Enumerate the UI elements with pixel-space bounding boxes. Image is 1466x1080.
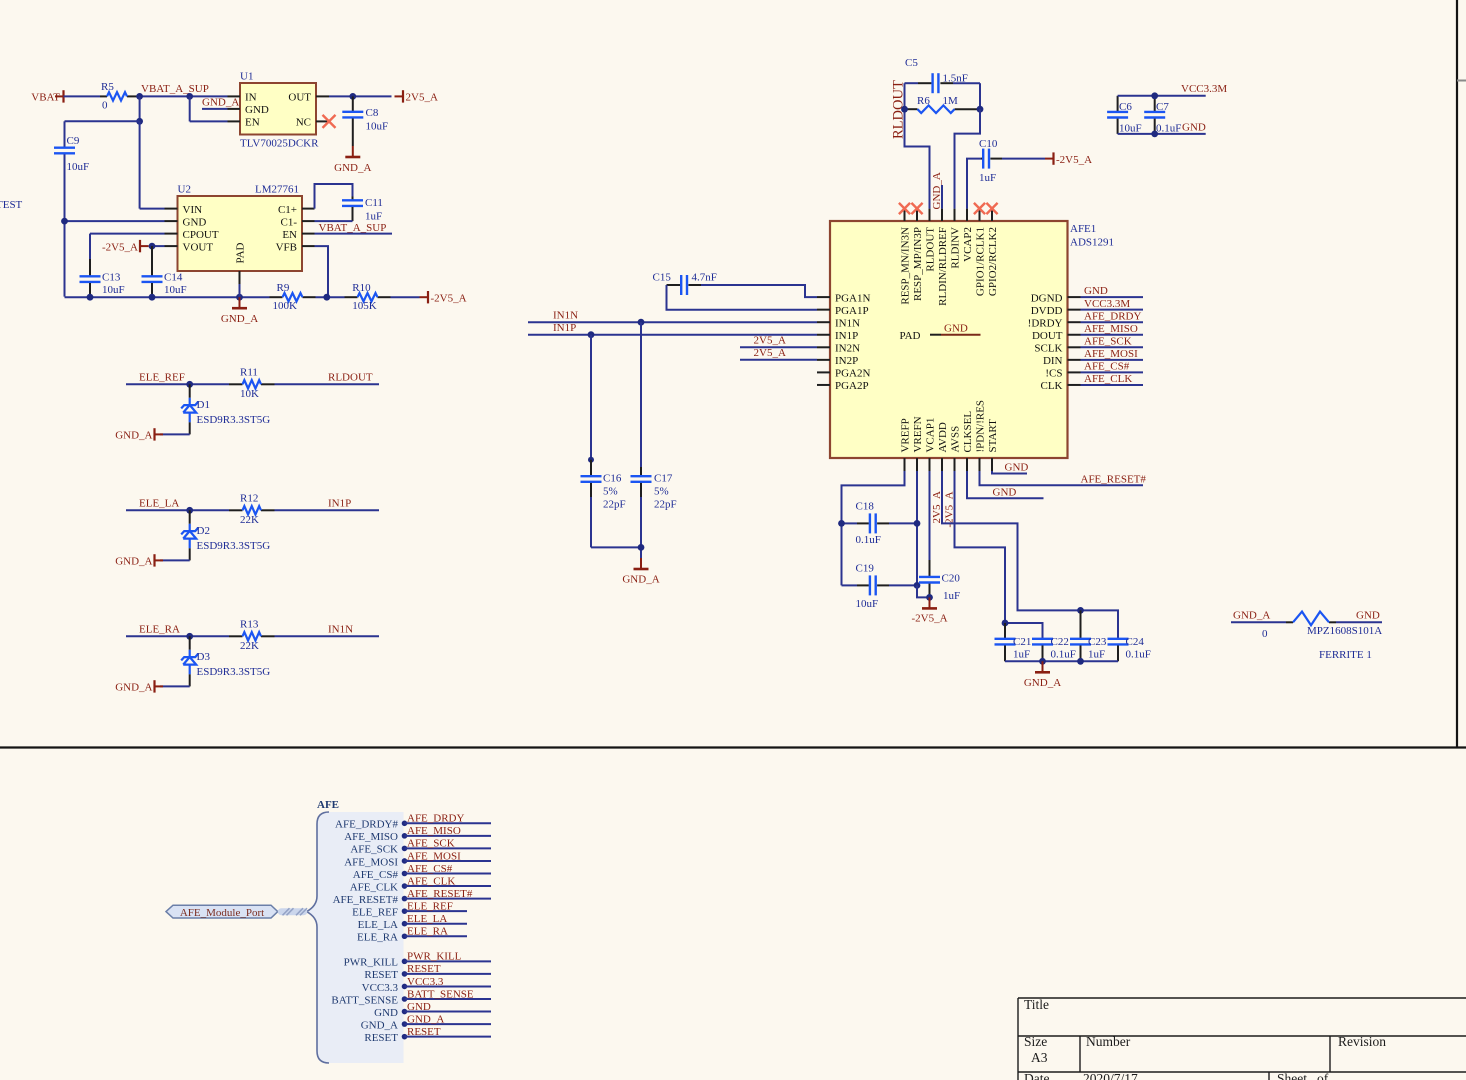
wire down to C9 branch	[139, 96, 141, 121]
diode D2 ESD9R3.3ST5G	[189, 510, 191, 524]
svg-text:PAD: PAD	[235, 242, 247, 263]
svg-text:R10: R10	[352, 282, 371, 294]
AFE1 left pin IN2P	[817, 359, 830, 361]
svg-text:ELE_REF: ELE_REF	[407, 900, 453, 912]
wire AVDD rail to C23 C24	[942, 471, 1118, 638]
no-connect X at RESP_MN/IN3N	[899, 203, 910, 214]
wire AFE_MISO net	[1081, 334, 1144, 336]
svg-text:IN1P: IN1P	[328, 497, 351, 509]
capacitor C24	[1108, 638, 1129, 640]
wire C17 column	[640, 322, 642, 467]
svg-text:GND: GND	[1356, 609, 1380, 621]
wire U2 EN to VBAT_A_SUP	[315, 233, 393, 235]
power port 2V5_A	[395, 95, 404, 97]
wire harness ELE_LA	[405, 923, 468, 925]
svg-text:0.1uF: 0.1uF	[856, 534, 881, 546]
junction C14 bottom	[149, 294, 156, 301]
AFE1 right pin !CS	[1068, 371, 1081, 373]
sheet border horizontal divider	[0, 746, 1466, 748]
power port GND_A at D3	[155, 685, 164, 687]
U2 pin EN	[302, 233, 315, 235]
title block frame	[1018, 997, 1466, 999]
svg-text:-2V5_A: -2V5_A	[102, 241, 138, 253]
svg-text:LM27761: LM27761	[255, 184, 299, 196]
svg-text:R12: R12	[240, 493, 258, 505]
wire GND_A to U1 GND pin	[202, 108, 228, 110]
svg-text:BATT_SENSE: BATT_SENSE	[407, 988, 474, 1000]
svg-text:PWR_KILL: PWR_KILL	[407, 951, 462, 963]
wire 2V5_A to IN2P	[740, 359, 817, 361]
junction C8 tap	[349, 93, 356, 100]
svg-text:MPZ1608S101A: MPZ1608S101A	[1307, 625, 1382, 637]
svg-text:1uF: 1uF	[365, 210, 382, 222]
resistor R10	[345, 296, 358, 298]
svg-text:R11: R11	[240, 367, 258, 379]
AFE1 top pin GPIO2/RCLK2	[991, 209, 993, 221]
svg-text:U2: U2	[178, 184, 191, 196]
wire RLDOUT left vertical	[905, 83, 930, 208]
U1 pin OUT	[316, 95, 329, 97]
svg-text:AFE_Module_Port: AFE_Module_Port	[180, 907, 264, 919]
svg-text:10uF: 10uF	[366, 121, 389, 133]
svg-text:AFE_DRDY: AFE_DRDY	[407, 813, 465, 825]
wire harness AFE_MOSI	[405, 860, 492, 862]
U1 pin IN	[228, 95, 241, 97]
AFE1 right pin DIN	[1068, 359, 1081, 361]
svg-text:AFE_SCK: AFE_SCK	[1084, 335, 1132, 347]
junction C9 branch	[136, 118, 143, 125]
svg-text:RESET: RESET	[364, 969, 398, 981]
AFE1 bottom pin AVDD	[941, 458, 943, 471]
AFE1 bottom pin !PDN/!RES	[979, 458, 981, 471]
svg-text:Revision: Revision	[1338, 1034, 1386, 1049]
svg-text:22K: 22K	[240, 514, 259, 526]
wire AVSS rail to C21 C22	[955, 471, 1043, 638]
wire C11 bottom to C1-	[315, 220, 353, 222]
svg-text:GND: GND	[183, 216, 207, 228]
svg-text:C9: C9	[67, 135, 80, 147]
sheet border right vertical	[1456, 0, 1458, 748]
wire VBAT_A_SUP node to U1 IN	[140, 95, 228, 97]
svg-text:R9: R9	[277, 282, 290, 294]
wire AFE_CLK net	[1081, 384, 1144, 386]
svg-text:C19: C19	[856, 562, 875, 574]
junction C22 bottom	[1039, 658, 1046, 665]
svg-text:ELE_LA: ELE_LA	[407, 913, 447, 925]
svg-text:EN: EN	[282, 229, 297, 241]
svg-text:Size: Size	[1024, 1034, 1047, 1049]
svg-text:VOUT: VOUT	[183, 241, 214, 253]
svg-text:CLK: CLK	[1041, 380, 1063, 392]
U2 pin CPOUT	[165, 233, 178, 235]
svg-text:GND: GND	[944, 323, 968, 335]
svg-text:IN2P: IN2P	[835, 355, 858, 367]
svg-text:ELE_REF: ELE_REF	[352, 906, 398, 918]
wire C15 left to PGA1P	[667, 285, 818, 310]
wire U1 OUT to 2V5_A	[329, 95, 392, 97]
svg-text:Title: Title	[1024, 997, 1049, 1012]
svg-text:0: 0	[102, 100, 108, 112]
no-connect X at GPIO1/RCLK1	[974, 203, 985, 214]
svg-text:SCLK: SCLK	[1034, 343, 1062, 355]
AFE1 bottom pin VCAP1	[929, 458, 931, 471]
svg-text:22K: 22K	[240, 640, 259, 652]
svg-text:GND_A: GND_A	[361, 1019, 398, 1031]
wire harness VCC3.3	[405, 985, 492, 987]
wire !PDN/!RES to AFE_RESET#	[980, 471, 1144, 485]
svg-text:ELE_RA: ELE_RA	[407, 926, 448, 938]
wire ELE_RA row right	[275, 635, 380, 637]
svg-text:C7: C7	[1156, 101, 1169, 113]
sheet border zone tick	[1457, 80, 1466, 82]
U2 pin VOUT	[165, 245, 178, 247]
wire ferrite to GND	[1336, 621, 1382, 623]
wire VREFP loop	[842, 471, 905, 585]
AFE1 bottom pin AVSS	[954, 458, 956, 471]
svg-text:AFE_MISO: AFE_MISO	[407, 825, 461, 837]
wire harness AFE_RESET#	[405, 898, 492, 900]
AFE1 right pin DOUT	[1068, 334, 1081, 336]
junction EN branch	[186, 93, 193, 100]
svg-text:0: 0	[1262, 628, 1268, 640]
wire harness RESET	[405, 973, 492, 975]
svg-text:DGND: DGND	[1031, 292, 1063, 304]
junction ground node below C17	[638, 544, 645, 551]
svg-text:ELE_RA: ELE_RA	[139, 623, 180, 635]
svg-text:IN1N: IN1N	[835, 317, 860, 329]
AFE1 top pin VCAP2	[966, 209, 968, 221]
AFE1 left pin IN2N	[817, 346, 830, 348]
AFE1 right pin CLK	[1068, 384, 1081, 386]
svg-text:VREFP: VREFP	[900, 418, 912, 452]
svg-text:1uF: 1uF	[943, 590, 960, 602]
svg-text:1uF: 1uF	[1013, 649, 1030, 661]
AFE1 top pin RLDINV	[954, 209, 956, 221]
AFE1 top pin RESP_MP/IN3P	[916, 209, 918, 221]
wire GND net	[1081, 296, 1144, 298]
resistor R6	[905, 108, 918, 110]
svg-text:R5: R5	[101, 81, 114, 93]
wire U2 VIN	[140, 208, 165, 210]
svg-text:2V5_A: 2V5_A	[406, 92, 438, 104]
svg-text:ESD9R3.3ST5G: ESD9R3.3ST5G	[197, 414, 271, 426]
svg-text:DIN: DIN	[1043, 355, 1063, 367]
svg-text:2020/7/17: 2020/7/17	[1083, 1071, 1138, 1080]
U2 pin C1-	[302, 220, 315, 222]
capacitor C22	[1042, 637, 1044, 639]
svg-text:AFE_CLK: AFE_CLK	[350, 881, 398, 893]
svg-text:1uF: 1uF	[1088, 649, 1105, 661]
capacitor C16	[590, 460, 592, 476]
junction R6 left	[901, 106, 908, 113]
AFE1 bottom pin VREFP	[904, 458, 906, 471]
U1 pin EN	[228, 120, 241, 122]
svg-text:GND: GND	[993, 487, 1017, 499]
svg-text:!DRDY: !DRDY	[1028, 317, 1063, 329]
AFE1 bottom pin VREFN	[916, 458, 918, 471]
svg-text:IN1N: IN1N	[553, 309, 578, 321]
wire C16 to C17 ground node	[591, 546, 641, 548]
svg-text:GPIO1/RCLK1: GPIO1/RCLK1	[975, 227, 987, 296]
svg-text:AFE_CLK: AFE_CLK	[1084, 373, 1132, 385]
svg-text:NC: NC	[296, 117, 311, 129]
svg-text:C24: C24	[1126, 636, 1145, 648]
svg-text:GND_A: GND_A	[407, 1013, 444, 1025]
svg-text:C21: C21	[1013, 636, 1031, 648]
wire VREFN to -2V5_A node	[917, 585, 930, 597]
svg-text:10K: 10K	[240, 388, 259, 400]
AFE1 top pin GPIO1/RCLK1	[979, 209, 981, 221]
svg-text:IN1N: IN1N	[328, 623, 353, 635]
wire C5 right vertical	[979, 83, 981, 109]
svg-text:10uF: 10uF	[856, 598, 879, 610]
wire ELE_REF row left	[126, 383, 229, 385]
svg-text:1uF: 1uF	[979, 172, 996, 184]
svg-text:10uF: 10uF	[1119, 122, 1142, 134]
svg-text:C1+: C1+	[278, 204, 297, 216]
svg-text:C23: C23	[1088, 636, 1107, 648]
svg-text:CLKSEL: CLKSEL	[962, 411, 974, 453]
svg-text:GND: GND	[374, 1007, 398, 1019]
resistor R5	[100, 95, 107, 97]
svg-text:C20: C20	[942, 573, 961, 585]
svg-text:IN1P: IN1P	[835, 330, 858, 342]
AFE1 right pin !DRDY	[1068, 321, 1081, 323]
svg-text:OUT: OUT	[288, 92, 311, 104]
svg-text:ELE_LA: ELE_LA	[358, 919, 398, 931]
svg-text:AFE_CLK: AFE_CLK	[407, 875, 455, 887]
resistor R9	[270, 296, 283, 298]
svg-text:AFE1: AFE1	[1070, 223, 1096, 235]
wire EN drop	[189, 96, 191, 121]
wire ELE_RA row left	[126, 635, 229, 637]
U2 pin C1+	[302, 208, 315, 210]
svg-text:D2: D2	[197, 525, 210, 537]
wire VCC3.3M rail	[1118, 95, 1206, 97]
svg-text:AVDD: AVDD	[937, 422, 949, 452]
svg-text:22pF: 22pF	[603, 498, 626, 510]
svg-text:GPIO2/RCLK2: GPIO2/RCLK2	[987, 227, 999, 296]
svg-text:DOUT: DOUT	[1032, 330, 1063, 342]
svg-text:!PDN/!RES: !PDN/!RES	[975, 400, 987, 453]
svg-text:AFE_MISO: AFE_MISO	[1084, 323, 1138, 335]
svg-text:10uF: 10uF	[164, 284, 187, 296]
wire harness AFE_CS#	[405, 873, 492, 875]
power port -2V5_A at rail end	[420, 296, 429, 298]
svg-text:AFE_SCK: AFE_SCK	[407, 838, 455, 850]
svg-text:VIN: VIN	[183, 204, 203, 216]
svg-text:C17: C17	[654, 472, 673, 484]
svg-text:0.1uF: 0.1uF	[1051, 649, 1076, 661]
wire VREFN column	[916, 471, 918, 585]
wire C16 column	[590, 335, 592, 460]
power port -2V5_A below C20	[929, 597, 931, 608]
svg-text:PWR_KILL: PWR_KILL	[344, 957, 399, 969]
svg-text:ELE_RA: ELE_RA	[357, 932, 398, 944]
capacitor C11	[352, 197, 354, 201]
svg-text:AFE: AFE	[317, 799, 339, 811]
power port GND_A below C8	[352, 146, 354, 157]
wire CLKSEL to GND	[967, 471, 1044, 498]
svg-text:GND_A: GND_A	[115, 430, 152, 442]
wire D1 to ground	[160, 433, 190, 435]
svg-text:C16: C16	[603, 472, 622, 484]
svg-text:IN2N: IN2N	[835, 343, 860, 355]
svg-text:2V5_A: 2V5_A	[754, 347, 786, 359]
junction C17 tap on IN1N	[638, 319, 645, 326]
junction C18 right	[914, 520, 921, 527]
svg-text:AFE_DRDY#: AFE_DRDY#	[335, 819, 398, 831]
U2 pin VFB	[302, 245, 315, 247]
svg-text:10uF: 10uF	[102, 284, 125, 296]
svg-text:PGA1P: PGA1P	[835, 305, 869, 317]
wire AFE_SCK net	[1081, 346, 1144, 348]
svg-text:-2V5_A: -2V5_A	[911, 613, 947, 625]
resistor R13	[229, 635, 243, 637]
junction C21 top	[1002, 620, 1009, 627]
svg-text:GND_A: GND_A	[622, 574, 659, 586]
junction diode tap D2	[186, 507, 193, 514]
svg-text:GND_A: GND_A	[334, 162, 371, 174]
svg-text:R6: R6	[917, 95, 930, 107]
svg-text:10uF: 10uF	[67, 161, 90, 173]
svg-text:PGA1N: PGA1N	[835, 292, 871, 304]
svg-text:GND_A: GND_A	[202, 96, 239, 108]
no-connect X at GPIO2/RCLK2	[986, 203, 997, 214]
capacitor C20 on VCAP1	[929, 471, 931, 560]
svg-text:C11: C11	[365, 197, 383, 209]
power port GND_A below C16 C17	[640, 558, 642, 569]
svg-text:C10: C10	[979, 138, 998, 150]
svg-text:RESET: RESET	[407, 963, 441, 975]
svg-text:ESD9R3.3ST5G: ESD9R3.3ST5G	[197, 666, 271, 678]
AFE1 right pin DVDD	[1068, 309, 1081, 311]
svg-text:DVDD: DVDD	[1031, 305, 1063, 317]
svg-text:-2V5_A: -2V5_A	[1056, 154, 1092, 166]
svg-text:RLDIN/RLDREF: RLDIN/RLDREF	[937, 227, 949, 306]
svg-text:PGA2N: PGA2N	[835, 368, 871, 380]
wire harness ELE_RA	[405, 935, 468, 937]
svg-text:START: START	[987, 419, 999, 453]
svg-text:0.1uF: 0.1uF	[1126, 649, 1151, 661]
svg-text:AFE_DRDY: AFE_DRDY	[1084, 310, 1142, 322]
wire harness AFE_CLK	[405, 885, 492, 887]
power port GND_A below U2 PAD	[239, 297, 241, 308]
svg-text:0.1uF: 0.1uF	[1156, 122, 1181, 134]
svg-text:Date: Date	[1024, 1071, 1049, 1080]
wire-end dot above C16	[588, 457, 594, 463]
svg-text:AFE_MISO: AFE_MISO	[344, 831, 398, 843]
power port GND_A below cap bank	[1042, 661, 1044, 672]
svg-text:FERRITE 1: FERRITE 1	[1319, 649, 1372, 661]
svg-text:GND_A: GND_A	[1233, 609, 1270, 621]
wire U2 VOUT node	[152, 245, 165, 247]
svg-text:D3: D3	[197, 651, 211, 663]
svg-text:GND_A: GND_A	[221, 313, 258, 325]
wire GND rail under C6 C7	[1118, 133, 1206, 135]
IC U2 LM27761 body	[178, 196, 303, 271]
svg-text:VCAP2: VCAP2	[962, 227, 974, 262]
svg-text:Number: Number	[1086, 1034, 1131, 1049]
wire U2 GND to left rail	[65, 220, 165, 222]
svg-text:AFE_RESET#: AFE_RESET#	[333, 894, 399, 906]
resistor R11	[229, 383, 243, 385]
svg-text:GND_A: GND_A	[1024, 677, 1061, 689]
svg-text:ELE_REF: ELE_REF	[139, 371, 185, 383]
power port -2V5_A at VOUT	[140, 245, 149, 247]
junction U2 GND rail	[61, 218, 68, 225]
svg-text:C18: C18	[856, 500, 875, 512]
svg-text:C8: C8	[366, 107, 379, 119]
svg-text:100K: 100K	[273, 300, 298, 312]
wire harness RESET	[405, 1036, 492, 1038]
wire C1+ loop to C11	[315, 184, 353, 209]
AFE1 left pin PGA1P	[817, 309, 830, 311]
svg-text:VBAT: VBAT	[31, 92, 60, 104]
wire VBAT to R5	[64, 95, 101, 97]
U1 pin GND	[228, 108, 241, 110]
svg-text:ELE_LA: ELE_LA	[139, 497, 179, 509]
power port -2V5_A at C10	[1045, 158, 1054, 160]
svg-text:!CS: !CS	[1045, 368, 1062, 380]
svg-text:IN1P: IN1P	[553, 322, 576, 334]
diode D3 ESD9R3.3ST5G	[189, 636, 191, 650]
wire harness GND_A	[405, 1023, 492, 1025]
svg-text:RESP_MN/IN3N: RESP_MN/IN3N	[900, 227, 912, 305]
wire PAD to rail	[239, 284, 241, 297]
capacitor C14	[151, 246, 153, 276]
wire harness ELE_REF	[405, 910, 468, 912]
svg-text:A3: A3	[1031, 1050, 1048, 1065]
junction R6 right	[977, 106, 984, 113]
svg-text:VCAP1: VCAP1	[925, 418, 937, 453]
svg-text:AFE_MOSI: AFE_MOSI	[344, 856, 398, 868]
wire harness PWR_KILL	[405, 960, 492, 962]
svg-text:4.7nF: 4.7nF	[692, 272, 717, 284]
svg-text:TEST: TEST	[0, 199, 23, 211]
wire AFE_MOSI net	[1081, 359, 1144, 361]
svg-text:1.5nF: 1.5nF	[943, 72, 968, 84]
svg-text:RESET: RESET	[407, 1026, 441, 1038]
svg-text:AFE_SCK: AFE_SCK	[350, 844, 398, 856]
svg-text:105K: 105K	[352, 300, 377, 312]
AFE1 top pin RESP_MN/IN3N	[904, 209, 906, 221]
wire harness GND	[405, 1011, 492, 1013]
U1 pin NC with no-connect X	[316, 120, 329, 122]
wire D3 to ground	[160, 685, 190, 687]
svg-text:AFE_CS#: AFE_CS#	[407, 863, 453, 875]
IC U1 TLV70025DCKR body	[240, 83, 316, 135]
svg-text:GND: GND	[1084, 285, 1108, 297]
power port GND_A at D2	[155, 559, 164, 561]
capacitor C23	[1080, 610, 1082, 638]
AFE1 left pin IN1P	[817, 334, 830, 336]
wire harness AFE_MISO	[405, 835, 492, 837]
wire harness BATT_SENSE	[405, 998, 492, 1000]
svg-text:VBAT_A_SUP: VBAT_A_SUP	[319, 222, 387, 234]
svg-text:VCC3.3: VCC3.3	[362, 982, 399, 994]
junction C19 right	[914, 582, 921, 589]
wire ELE_LA row right	[275, 509, 380, 511]
resistor R12	[229, 509, 243, 511]
AFE1 left pin PGA2P	[817, 384, 830, 386]
svg-text:C6: C6	[1119, 101, 1132, 113]
junction C16 tap on IN1P	[588, 331, 595, 338]
svg-text:GND: GND	[407, 1001, 431, 1013]
harness cable	[278, 908, 308, 915]
svg-text:TLV70025DCKR: TLV70025DCKR	[240, 138, 319, 150]
power port GND_A at D1	[155, 433, 164, 435]
